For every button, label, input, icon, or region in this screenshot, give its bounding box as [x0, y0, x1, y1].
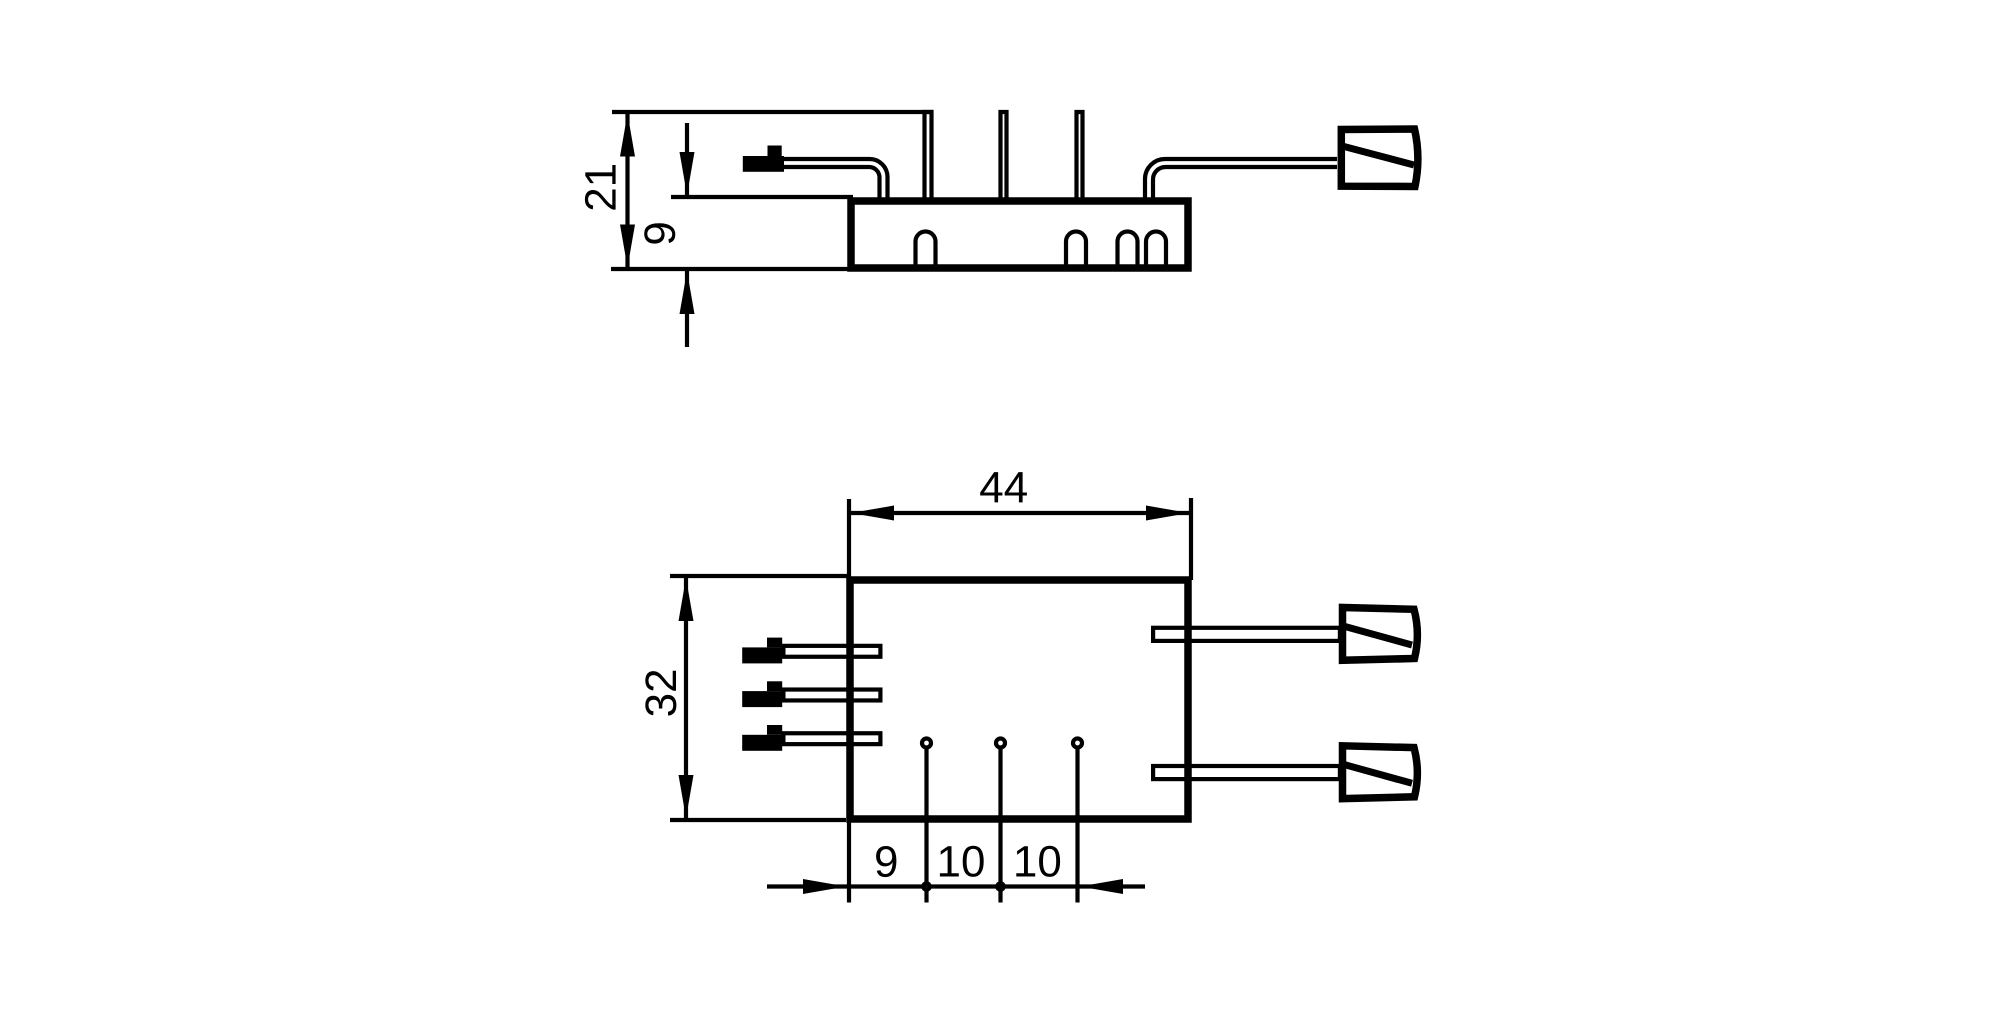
- dimension 10 second label: [1016, 846, 1060, 877]
- top view: hole 3: [1073, 739, 1082, 748]
- side view: lead wire from plug into body: [782, 159, 888, 199]
- top view: upper connector block: [1343, 608, 1418, 661]
- top view: pin row 1 with black plug: [742, 638, 880, 664]
- side view: pin 1: [925, 112, 932, 201]
- hole 2 extension line: [998, 748, 1002, 903]
- dimension 44 label: [980, 472, 1027, 502]
- side view: notch 2: [1066, 232, 1086, 267]
- dimension 9 bottom label: [876, 846, 896, 877]
- side view: body bottom line (left thin part): [611, 267, 853, 271]
- body left extension line (bottom dimension): [847, 819, 851, 903]
- side view: notch 4: [1146, 232, 1166, 267]
- top view: hole 2: [996, 739, 1005, 748]
- hole 3 extension line: [1075, 748, 1079, 903]
- dimension 9 side label: [644, 223, 675, 243]
- dimension 9 (side): lines and arrows: [680, 123, 695, 347]
- side view: black plug on lead wire: [743, 146, 784, 172]
- dimension 21 label: [585, 165, 616, 210]
- side view: pin 2: [1001, 112, 1007, 201]
- top view: lower connector diagonal mark: [1345, 765, 1412, 784]
- side view: notch 1: [916, 232, 936, 267]
- bottom dimension line, arrows and dots: [767, 879, 1145, 894]
- dimension 32: extension lines: [670, 576, 850, 820]
- top view: upper connector diagonal mark: [1345, 627, 1412, 646]
- dimension 44: line and arrows: [850, 506, 1190, 521]
- dimension 10 first label: [940, 846, 984, 877]
- hole 1 extension line: [924, 748, 928, 903]
- side view: body block: [851, 201, 1188, 268]
- top view: body block: [850, 580, 1188, 819]
- side view: notch 3: [1118, 232, 1138, 267]
- top view: pin row 3 with black plug: [742, 725, 880, 751]
- side view: cable from body to connector: [1145, 159, 1337, 199]
- top view: lower cable: [1153, 766, 1340, 779]
- dimension 21: line and arrows: [620, 113, 635, 268]
- side view: pin-top reference line: [612, 110, 933, 114]
- top view: pin row 2 with black plug: [742, 681, 880, 707]
- dimension 44: extension lines: [849, 498, 1191, 580]
- top view: hole 1: [922, 739, 931, 748]
- dimension 32 label: [645, 671, 676, 716]
- side view: body top line (left thin part): [671, 195, 853, 199]
- top view: lower connector block: [1343, 746, 1418, 799]
- side view: pin 3: [1077, 112, 1083, 201]
- side view: cable connector block: [1341, 129, 1418, 187]
- side view: connector diagonal mark: [1344, 147, 1414, 166]
- top view: upper cable: [1153, 628, 1340, 641]
- dimension 32: line and arrows: [679, 577, 694, 819]
